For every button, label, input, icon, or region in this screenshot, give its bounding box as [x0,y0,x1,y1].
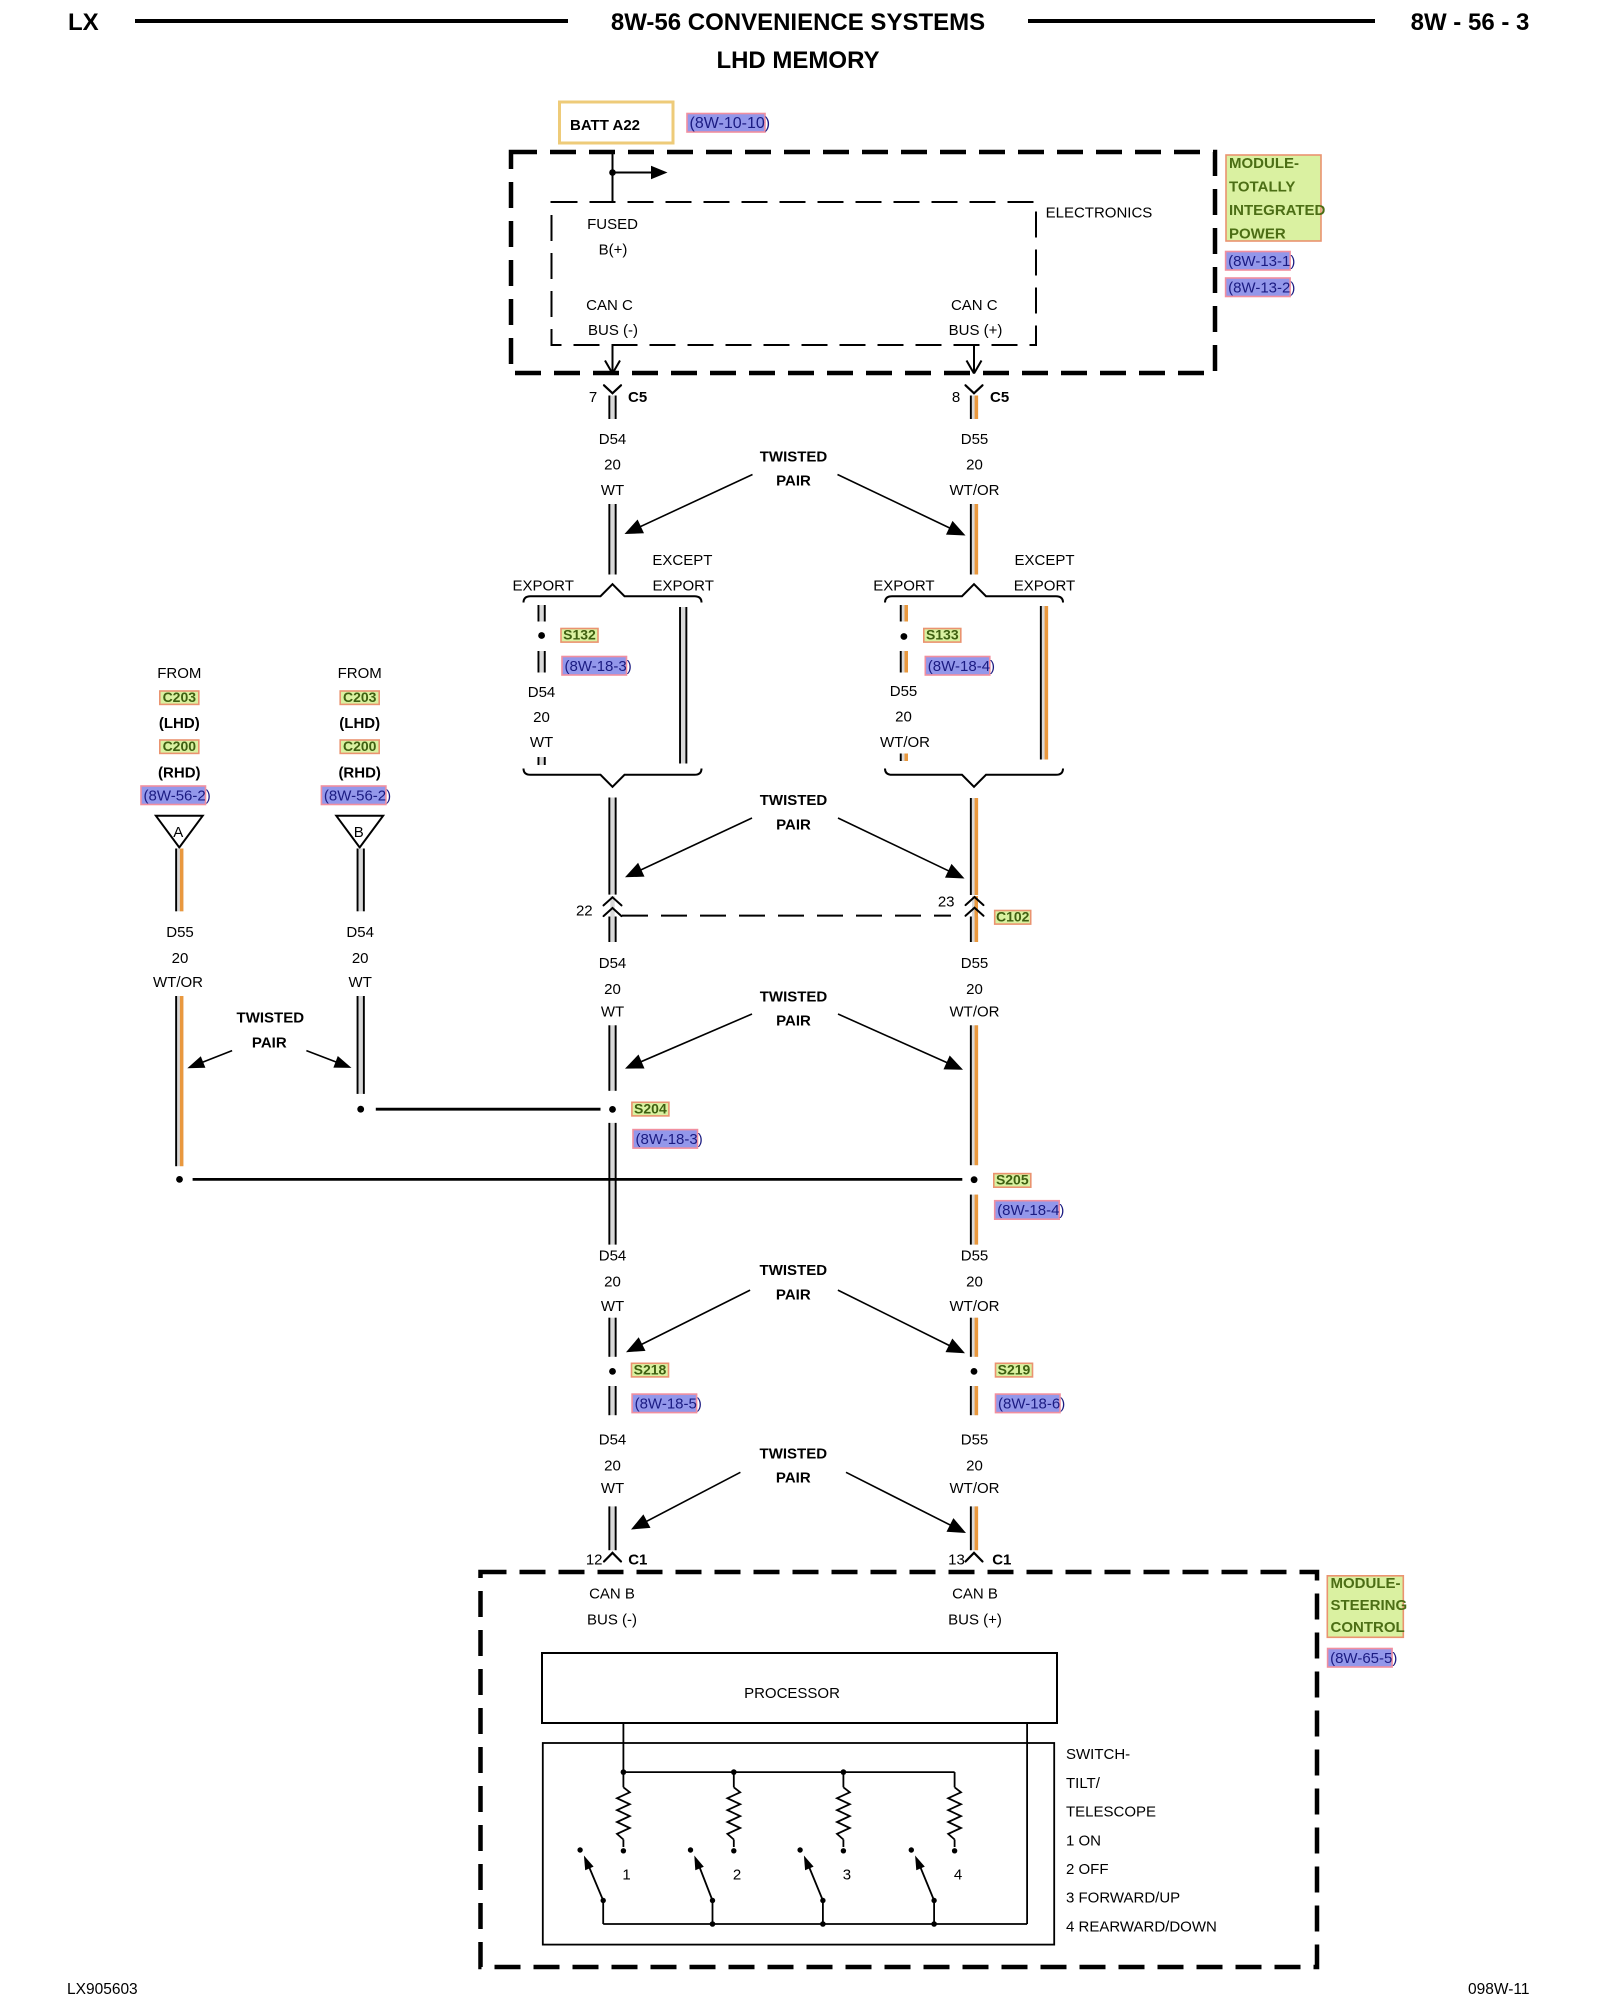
svg-text:D54: D54 [599,431,627,448]
svg-text:D55: D55 [961,431,989,448]
svg-text:(8W-65-5): (8W-65-5) [1330,1650,1397,1667]
svg-text:TWISTED: TWISTED [760,448,828,465]
svg-text:12: 12 [586,1552,603,1569]
svg-text:MODULE-: MODULE- [1229,155,1299,172]
svg-text:D54: D54 [599,1431,627,1448]
svg-text:BUS (-): BUS (-) [587,1612,637,1629]
svg-text:FUSED: FUSED [587,216,638,233]
svg-text:D55: D55 [961,1248,989,1265]
svg-text:BATT A22: BATT A22 [570,117,640,134]
svg-text:C200: C200 [163,738,197,754]
svg-text:(RHD): (RHD) [158,765,201,782]
svg-text:D55: D55 [961,1431,989,1448]
svg-text:EXPORT: EXPORT [873,578,934,595]
svg-text:8W-56 CONVENIENCE SYSTEMS: 8W-56 CONVENIENCE SYSTEMS [611,9,985,36]
svg-text:POWER: POWER [1229,226,1286,243]
svg-text:(LHD): (LHD) [159,715,200,732]
svg-text:WT/OR: WT/OR [153,974,203,991]
svg-text:S218: S218 [634,1361,667,1377]
svg-text:C203: C203 [343,689,377,705]
svg-text:2 OFF: 2 OFF [1066,1861,1109,1878]
svg-text:1: 1 [622,1867,630,1884]
svg-text:20: 20 [172,950,189,967]
svg-text:PROCESSOR: PROCESSOR [744,1685,840,1702]
svg-text:PAIR: PAIR [776,473,811,490]
svg-text:TILT/: TILT/ [1066,1775,1101,1792]
svg-text:D55: D55 [890,683,918,700]
svg-text:(8W-18-3): (8W-18-3) [565,658,632,675]
svg-text:CAN B: CAN B [952,1586,998,1603]
svg-text:TELESCOPE: TELESCOPE [1066,1804,1156,1821]
svg-text:CAN C: CAN C [951,297,998,314]
svg-text:STEERING: STEERING [1331,1597,1408,1614]
svg-text:1 ON: 1 ON [1066,1832,1101,1849]
svg-text:(8W-18-6): (8W-18-6) [998,1395,1065,1412]
svg-text:EXPORT: EXPORT [512,578,573,595]
svg-text:TWISTED: TWISTED [760,988,828,1005]
svg-text:(8W-18-3): (8W-18-3) [636,1131,703,1148]
svg-text:(8W-10-10): (8W-10-10) [690,115,771,132]
svg-text:8W - 56 - 3: 8W - 56 - 3 [1411,9,1530,36]
svg-text:7: 7 [589,389,597,406]
svg-text:WT: WT [601,482,624,499]
svg-text:WT/OR: WT/OR [880,734,930,751]
svg-text:(8W-13-1): (8W-13-1) [1228,253,1295,270]
svg-text:20: 20 [966,1457,983,1474]
svg-text:C1: C1 [628,1552,647,1569]
svg-text:20: 20 [966,457,983,474]
svg-text:BUS (-): BUS (-) [588,322,638,339]
svg-text:23: 23 [938,894,955,911]
svg-text:INTEGRATED: INTEGRATED [1229,202,1326,219]
svg-text:C1: C1 [992,1552,1011,1569]
svg-text:WT/OR: WT/OR [950,1004,1000,1021]
svg-text:B(+): B(+) [599,242,628,259]
svg-text:PAIR: PAIR [776,1013,811,1030]
svg-text:FROM: FROM [157,665,201,682]
svg-text:20: 20 [604,1274,621,1291]
svg-text:TWISTED: TWISTED [760,1445,828,1462]
svg-text:D55: D55 [961,955,989,972]
svg-text:D54: D54 [599,955,627,972]
svg-text:(8W-13-2): (8W-13-2) [1228,279,1295,296]
svg-text:C203: C203 [163,689,197,705]
svg-text:20: 20 [533,709,550,726]
svg-text:SWITCH-: SWITCH- [1066,1746,1130,1763]
svg-text:13: 13 [948,1552,965,1569]
svg-text:PAIR: PAIR [776,1470,811,1487]
svg-text:(8W-18-4): (8W-18-4) [997,1202,1064,1219]
svg-text:TOTALLY: TOTALLY [1229,179,1295,196]
svg-text:TWISTED: TWISTED [760,792,828,809]
svg-text:EXPORT: EXPORT [1014,578,1075,595]
svg-text:20: 20 [352,950,369,967]
svg-text:LHD MEMORY: LHD MEMORY [716,47,879,74]
svg-text:20: 20 [604,1457,621,1474]
svg-text:S132: S132 [563,627,596,643]
svg-text:D54: D54 [599,1248,627,1265]
svg-text:WT: WT [530,734,553,751]
svg-text:8: 8 [952,389,960,406]
svg-text:CONTROL: CONTROL [1331,1619,1405,1636]
svg-text:FROM: FROM [338,665,382,682]
svg-text:B: B [354,824,364,841]
svg-text:ELECTRONICS: ELECTRONICS [1046,205,1153,222]
svg-text:WT: WT [349,974,372,991]
svg-text:20: 20 [604,981,621,998]
svg-text:PAIR: PAIR [252,1035,287,1052]
svg-text:EXCEPT: EXCEPT [1014,552,1074,569]
svg-text:WT/OR: WT/OR [950,1480,1000,1497]
svg-text:CAN B: CAN B [589,1586,635,1603]
svg-text:4 REARWARD/DOWN: 4 REARWARD/DOWN [1066,1918,1217,1935]
svg-text:(RHD): (RHD) [338,765,381,782]
svg-text:EXPORT: EXPORT [652,578,713,595]
svg-text:098W-11: 098W-11 [1468,1981,1529,1998]
svg-text:TWISTED: TWISTED [237,1010,305,1027]
svg-text:S205: S205 [996,1172,1029,1188]
svg-text:D54: D54 [528,684,556,701]
svg-text:D54: D54 [346,924,374,941]
svg-text:WT/OR: WT/OR [950,1298,1000,1315]
svg-text:C5: C5 [990,389,1009,406]
svg-text:CAN C: CAN C [586,297,633,314]
svg-text:C5: C5 [628,389,647,406]
svg-text:PAIR: PAIR [776,817,811,834]
svg-text:20: 20 [966,1274,983,1291]
svg-text:BUS (+): BUS (+) [948,1612,1002,1629]
svg-text:WT/OR: WT/OR [950,482,1000,499]
svg-text:D55: D55 [166,924,194,941]
svg-text:20: 20 [966,981,983,998]
svg-text:A: A [173,824,183,841]
svg-text:BUS (+): BUS (+) [949,322,1003,339]
svg-text:20: 20 [604,457,621,474]
svg-text:WT: WT [601,1004,624,1021]
svg-text:EXCEPT: EXCEPT [652,552,712,569]
svg-text:3 FORWARD/UP: 3 FORWARD/UP [1066,1890,1180,1907]
svg-text:S219: S219 [998,1361,1031,1377]
svg-text:S133: S133 [926,627,959,643]
svg-text:(8W-18-4): (8W-18-4) [928,658,995,675]
svg-text:PAIR: PAIR [776,1286,811,1303]
svg-text:4: 4 [954,1867,962,1884]
svg-text:(8W-56-2): (8W-56-2) [324,787,391,804]
svg-text:WT: WT [601,1480,624,1497]
svg-text:LX: LX [68,9,99,36]
svg-text:(LHD): (LHD) [339,715,380,732]
svg-text:C200: C200 [343,738,377,754]
svg-text:(8W-56-2): (8W-56-2) [144,787,211,804]
svg-text:(8W-18-5): (8W-18-5) [635,1395,702,1412]
svg-text:2: 2 [733,1867,741,1884]
svg-text:LX905603: LX905603 [67,1981,138,1998]
svg-text:C102: C102 [996,909,1030,925]
svg-text:MODULE-: MODULE- [1331,1575,1401,1592]
svg-text:S204: S204 [634,1100,667,1116]
svg-text:TWISTED: TWISTED [760,1262,828,1279]
svg-text:22: 22 [576,903,593,920]
svg-text:20: 20 [895,709,912,726]
svg-text:3: 3 [843,1867,851,1884]
svg-text:WT: WT [601,1298,624,1315]
